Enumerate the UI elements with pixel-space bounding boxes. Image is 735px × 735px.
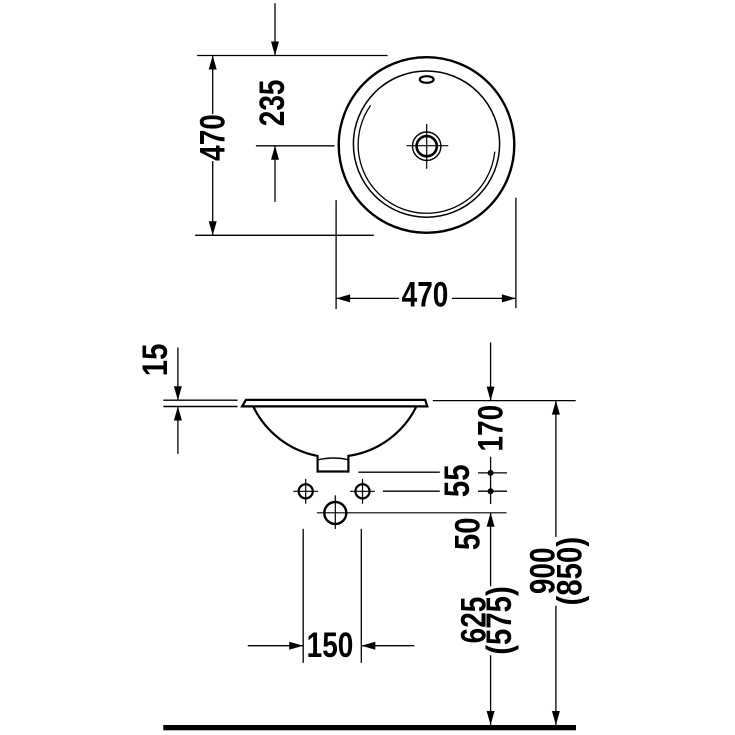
dimension 235 arrow down (271, 42, 279, 56)
dimension 150 arrow right (289, 642, 303, 650)
dimension 625 lower shaft (490, 655, 492, 725)
extension line faucet hole level dot segment (478, 490, 507, 492)
dimension dot hole level (488, 488, 494, 494)
basin bowl arc (358, 105, 495, 213)
drain outer circle (413, 132, 441, 160)
svg-text:55: 55 (438, 464, 477, 497)
overflow hole (420, 76, 434, 83)
svg-text:150: 150 (307, 625, 354, 665)
extension line vertical left (335, 200, 337, 309)
drain centerline horizontal (406, 145, 448, 147)
dimension 625 upper shaft (490, 513, 492, 587)
dimension 625 arrow up (487, 513, 495, 527)
dimension chain vertical through dots (490, 457, 492, 504)
dimension 900 upper shaft (555, 401, 557, 537)
drain centerline vertical side view (334, 495, 336, 529)
dimension 470 bottom arrow left (336, 294, 350, 302)
countertop surface line upper (163, 399, 237, 401)
dimension 900 lower shaft (555, 606, 557, 725)
dimension 470 left shaft lower (212, 161, 214, 235)
dimension 15 arrow down (174, 386, 182, 400)
basin outer rim circle (339, 57, 515, 233)
basin bowl profile left (253, 406, 416, 471)
dimension 470 left arrow down (209, 221, 217, 235)
svg-text:(575): (575) (480, 586, 519, 655)
dimension 150 left shaft (248, 645, 303, 647)
dimension 235 upper shaft (274, 3, 276, 55)
dimension 150 right shaft (361, 645, 414, 647)
faucet hole right crosshair vertical (362, 479, 364, 504)
drain centerline vertical (426, 124, 428, 169)
dimension 900 arrow down (552, 711, 560, 725)
svg-text:170: 170 (471, 405, 511, 452)
extension line center (235) (256, 145, 335, 147)
dimension 15 lower shaft (177, 407, 179, 454)
dimension 470 bottom arrow right (502, 294, 516, 302)
dimension 470 left shaft upper (212, 56, 214, 115)
svg-text:235: 235 (252, 80, 292, 127)
dimension 170 arrow down (487, 387, 495, 401)
svg-text:(850): (850) (550, 537, 589, 606)
extension line 150 right (360, 529, 362, 663)
extension line 150 left (302, 529, 304, 663)
drain recess inner line (318, 458, 349, 460)
countertop surface line lower (163, 406, 237, 408)
extension line vertical right (515, 198, 517, 309)
svg-text:470: 470 (193, 114, 233, 161)
faucet hole right circle (355, 484, 369, 498)
basin rim bar section (242, 400, 427, 407)
dimension 15 upper shaft (177, 348, 179, 401)
extension line top tangent (197, 55, 388, 57)
extension line stub bottom dot segment (478, 472, 507, 474)
floor line (163, 725, 576, 730)
drain centerline horizontal / extension line drain level (317, 512, 507, 514)
dimension 625 arrow down (487, 711, 495, 725)
dimension 470 left arrow up (209, 56, 217, 70)
extension line bottom tangent (195, 234, 374, 236)
dimension 235 lower shaft (274, 146, 276, 202)
dimension 150 arrow left (361, 642, 375, 650)
drain inner circle (417, 136, 437, 156)
svg-text:50: 50 (448, 517, 487, 550)
dimension 15 arrow up (174, 407, 182, 421)
faucet hole left crosshair horizontal (293, 490, 318, 492)
dimension 235 arrow up (271, 146, 279, 160)
faucet hole right crosshair horizontal (350, 490, 375, 492)
dimension 900 arrow up (552, 401, 560, 415)
extension line stub bottom (358, 471, 439, 473)
dimension 470 bottom shaft left (336, 297, 399, 299)
dimension 170 shaft above rim (490, 343, 492, 401)
extension line rim top right (433, 400, 576, 402)
faucet hole left circle (299, 484, 313, 498)
faucet hole left crosshair vertical (305, 479, 307, 504)
drain hole circle side view (324, 502, 346, 524)
svg-text:470: 470 (402, 274, 449, 314)
extension line faucet hole level (383, 490, 440, 492)
dimension 470 bottom shaft right (452, 297, 516, 299)
dimension dot stub level (488, 470, 494, 476)
svg-text:15: 15 (136, 344, 175, 377)
basin inner rim circle (353, 71, 499, 217)
